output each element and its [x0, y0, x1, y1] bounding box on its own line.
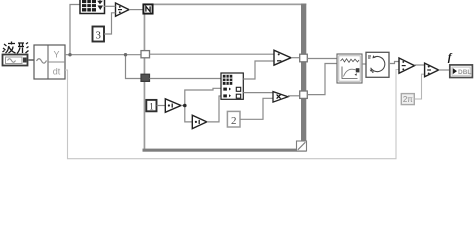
wire Y branch down to lower tunnel [126, 55, 142, 79]
wire divide1 to divide2 [415, 64, 425, 66]
wire junction up to index array input [185, 88, 221, 105]
wire junction down to function B [185, 106, 193, 122]
indicator terminal f (DBL) [450, 65, 473, 78]
svg-text:1: 1 [149, 101, 154, 111]
junction [124, 53, 127, 56]
tunnel (left, indexed, dark) [141, 74, 150, 81]
label 波形 (waveform) [3, 42, 29, 54]
tunnel (right, upper) [300, 54, 308, 62]
svg-text:Y: Y [53, 50, 59, 60]
increment function B [192, 115, 207, 128]
wire multiply to tunnel [288, 95, 300, 97]
constant 2 [227, 111, 240, 127]
wire mean to unwrap [362, 63, 366, 65]
wire index array out2 to multiply [243, 92, 273, 94]
index array function [221, 73, 243, 99]
wire divide to N [129, 9, 143, 11]
wire upper tunnel to mean vi [307, 58, 337, 60]
wire 2 to multiply lower input [240, 98, 273, 119]
loop count terminal N [143, 4, 152, 13]
wire lower tunnel to mean vi [307, 64, 337, 95]
array size function icon (clipped at top) [80, 0, 105, 14]
wire dt long run along bottom [65, 70, 399, 159]
wire 1 to increment [157, 105, 166, 107]
svg-text:dt: dt [53, 67, 61, 77]
divide function 1 [399, 58, 415, 73]
svg-text:2π: 2π [403, 95, 413, 104]
wire terminal to unbundle [28, 59, 34, 61]
multiply function [273, 92, 288, 103]
constant 2pi [401, 94, 414, 105]
increment function A [165, 99, 181, 113]
constant 1 [146, 100, 156, 111]
wire index array out1 to subtract lower input [243, 61, 274, 79]
wire Y branch up to array function [70, 5, 80, 55]
subtract function [274, 50, 291, 65]
constant 3 [93, 27, 105, 42]
tunnel (left, Y in) [141, 51, 150, 58]
wire unwrap to divide1 [389, 62, 399, 64]
wire tunnel2 to index array [150, 78, 222, 80]
wire increment A to junction [181, 105, 185, 107]
loop corner resize glyph [297, 141, 307, 151]
junction dot [183, 104, 187, 108]
wire subtract to tunnel [291, 57, 300, 59]
junction [68, 53, 71, 56]
wire tunnel1 across loop to subtract [150, 53, 275, 55]
get waveform components block (squiggle / Y / dt) [34, 45, 65, 79]
unwrap phase vi block [366, 52, 389, 77]
waveform control terminal [3, 55, 28, 66]
wire array size to divide [104, 5, 116, 7]
for loop border [143, 4, 307, 152]
divide function (top) [116, 3, 130, 16]
divide function 2 [425, 63, 439, 77]
svg-text:DBL: DBL [458, 69, 471, 76]
tunnel (right, lower) [300, 91, 308, 98]
wire function B to index array second input [207, 96, 221, 122]
svg-text:2: 2 [231, 115, 237, 127]
wire 3 to divide [104, 13, 116, 34]
mean vi block [337, 54, 362, 83]
svg-text:3: 3 [96, 31, 101, 42]
wire divide2 to indicator f [439, 69, 450, 71]
wire 2pi to divide2 lower input [414, 74, 424, 99]
wire Y main run [65, 54, 142, 56]
